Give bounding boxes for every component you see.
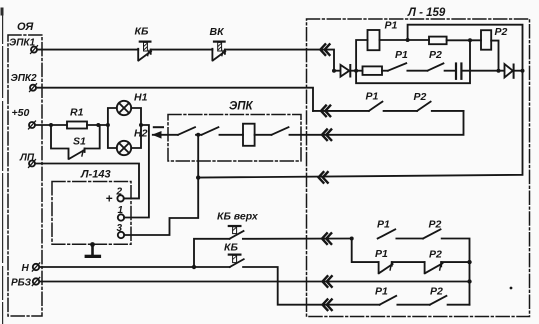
resistor R1	[67, 122, 87, 129]
svg-text:Р2: Р2	[414, 91, 427, 103]
wire riser to coil P1	[356, 40, 367, 71]
wire EPK2 row	[37, 88, 314, 111]
wire coil P2 down to diode row	[491, 41, 498, 71]
junction node loop top	[468, 38, 472, 42]
contact P2 row2	[417, 102, 431, 111]
wire KB verh riser	[194, 239, 230, 267]
contact P1 row D	[380, 296, 397, 305]
junction node return row	[196, 175, 200, 179]
connector chevron KB verh row	[322, 233, 331, 244]
EPK dash-dot box	[168, 115, 301, 162]
pushbutton KB (NO)	[224, 242, 244, 268]
scan speck	[510, 287, 513, 290]
svg-text:Л-143: Л-143	[80, 169, 111, 181]
contact P2 row A	[423, 229, 440, 238]
contact P1 row1	[388, 63, 406, 70]
contact P1 row A	[378, 229, 396, 238]
lamp H1	[108, 92, 148, 126]
relay coil P2	[481, 30, 491, 50]
svg-text:Н: Н	[22, 263, 30, 274]
junction node S1 right	[96, 123, 100, 127]
EPK coil	[243, 124, 255, 146]
svg-text:Р1: Р1	[377, 219, 390, 231]
contact P1 row2	[369, 102, 383, 111]
wire row B left riser	[352, 239, 379, 263]
svg-text:КБ верх: КБ верх	[217, 211, 259, 223]
pushbutton KB (NC)	[135, 26, 152, 61]
minus polarity mark	[154, 126, 163, 128]
wire coil to contact 3	[255, 134, 272, 136]
wire RBZ row C	[40, 281, 470, 283]
terminal 1	[118, 205, 125, 221]
terminal 2	[116, 187, 124, 202]
diode VD1	[334, 65, 356, 77]
wire coil P1 to resistor top	[380, 39, 430, 41]
junction node row B right	[467, 260, 471, 264]
svg-text:2: 2	[116, 187, 123, 198]
wire bypass loop	[356, 40, 470, 83]
svg-text:+: +	[106, 192, 113, 206]
relay coil P1	[368, 30, 380, 50]
terminal RBZ	[11, 277, 40, 288]
wire EPK1 row to box and down	[225, 50, 334, 71]
capacitor C	[456, 64, 461, 79]
pushbutton KB verh (NO)	[217, 211, 259, 239]
arrow to lamps	[152, 131, 178, 139]
svg-text:Р1: Р1	[385, 20, 398, 32]
junction node coil P1 tap	[354, 69, 358, 73]
EPK contact 1	[178, 127, 195, 135]
svg-text:Р2: Р2	[430, 286, 443, 298]
contact P2 row1	[428, 63, 444, 70]
svg-text:ЭПК2: ЭПК2	[11, 73, 38, 84]
wire	[432, 110, 464, 112]
terminal LP	[19, 153, 36, 168]
contact P2 row D	[430, 296, 447, 305]
wire N row	[40, 266, 230, 268]
pushbutton VK (NC)	[210, 26, 226, 61]
resistor top row	[429, 37, 447, 45]
svg-text:Л - 159: Л - 159	[407, 7, 446, 19]
junction node coil P2 bottom	[497, 69, 501, 73]
diode VD2	[505, 64, 523, 78]
chassis ground	[85, 242, 102, 258]
svg-text:ВК: ВК	[210, 26, 226, 38]
terminal EPK2	[11, 73, 38, 92]
switch S1 (NC)	[51, 125, 100, 159]
svg-text:Н2: Н2	[134, 128, 148, 140]
connector chevron return row	[319, 172, 328, 183]
wire +50 row	[35, 124, 67, 126]
L-143 dash-dot box	[52, 182, 131, 245]
wire	[407, 70, 427, 72]
EPK contact 3	[272, 127, 289, 135]
terminal block OYA dash-dot box	[8, 35, 42, 316]
svg-text:КБ: КБ	[224, 242, 238, 254]
junction node lamps left	[106, 123, 110, 127]
resistor row1	[363, 66, 383, 75]
svg-text:Р1: Р1	[375, 248, 388, 260]
junction node +50/S1 left	[49, 123, 53, 127]
contact P1 row B (NC)	[375, 248, 393, 273]
svg-text:ОЯ: ОЯ	[17, 21, 34, 33]
junction node diode VD1 anode	[332, 69, 336, 73]
wire terminal 3 staircase up to EPK node	[124, 135, 198, 235]
svg-text:КБ: КБ	[135, 26, 149, 38]
svg-text:ЭПК: ЭПК	[229, 101, 254, 113]
svg-text:R1: R1	[70, 107, 84, 119]
wire node segment	[196, 134, 202, 136]
connector chevron EPK output row	[322, 130, 331, 141]
wire row B to riser	[441, 261, 469, 263]
svg-text:Р1: Р1	[395, 49, 408, 61]
svg-text:Р2: Р2	[495, 26, 508, 38]
junction node row A	[350, 237, 354, 241]
connector chevron N row bottom	[323, 299, 332, 310]
svg-text:3: 3	[117, 223, 123, 234]
wire diode row	[356, 70, 362, 72]
EPK contact 2	[202, 127, 219, 135]
wire P1 P2 row segments	[313, 110, 369, 112]
L-159 dash-dot box	[307, 19, 530, 317]
svg-text:Р1: Р1	[375, 286, 388, 298]
terminal 3	[117, 223, 125, 238]
junction node lamps right	[139, 123, 143, 127]
wire EPK1 row left	[38, 49, 139, 51]
connector chevron EPK1 row	[320, 44, 329, 55]
svg-text:Р2: Р2	[429, 249, 442, 261]
wire to EPK coil	[220, 134, 244, 136]
svg-text:Н1: Н1	[134, 92, 148, 104]
wire	[392, 261, 425, 263]
wire	[384, 110, 418, 112]
wire EPK output row to relay contacts	[290, 111, 464, 135]
svg-text:ЛП: ЛП	[19, 153, 35, 164]
svg-text:S1: S1	[73, 136, 86, 148]
wire	[397, 304, 429, 306]
wire to coil P2	[447, 39, 481, 41]
contact P2 row B (NC)	[425, 249, 443, 274]
junction node row C right	[467, 279, 471, 283]
wire LP row to terminal 2	[35, 164, 139, 199]
wire N row to bottom row D	[243, 267, 380, 305]
wire between KB and VK	[151, 49, 213, 51]
svg-text:Р2: Р2	[429, 219, 442, 231]
wire capacitor to diode VD2	[463, 70, 505, 72]
junction node EPK contact chain	[196, 133, 200, 137]
terminal EPK1	[9, 38, 38, 54]
wire row D right	[448, 304, 470, 306]
connector chevron P1P2 row	[321, 106, 330, 117]
svg-text:РБЗ: РБЗ	[11, 278, 32, 289]
svg-text:1: 1	[118, 205, 124, 216]
svg-text:+50: +50	[12, 107, 30, 119]
terminal +50	[12, 107, 36, 129]
svg-text:ЭПК1: ЭПК1	[9, 38, 36, 49]
wire top conductor and right return	[198, 25, 522, 178]
wire row A to right riser	[442, 239, 470, 305]
svg-text:Р1: Р1	[366, 91, 379, 103]
svg-text:Р2: Р2	[429, 49, 442, 61]
wire	[445, 70, 455, 72]
wire	[382, 70, 388, 72]
wire KB verh to box row A	[243, 238, 352, 240]
junction node top conductor tap	[406, 38, 410, 42]
junction node N row KB riser	[192, 265, 196, 269]
junction node right conductor	[521, 69, 525, 73]
lamp H2	[108, 125, 148, 155]
wire lamps node to terminal 1 riser	[124, 125, 149, 218]
wire after R1	[87, 124, 108, 126]
connector chevron RBZ row	[323, 276, 332, 287]
terminal N	[22, 263, 40, 274]
wire	[396, 238, 423, 240]
